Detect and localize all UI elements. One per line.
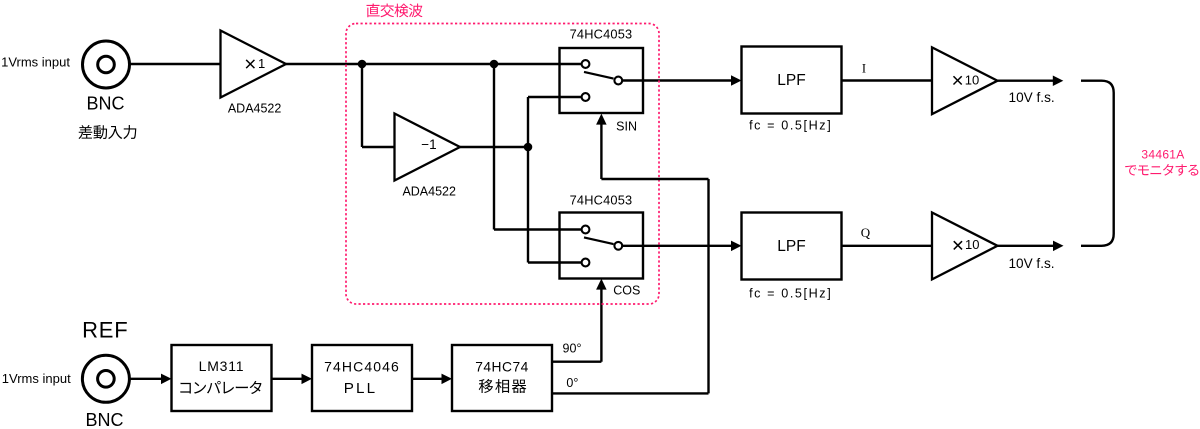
svg-text:34461A: 34461A [1141, 148, 1184, 162]
op-amp inverter -1 ADA4522 [395, 114, 461, 181]
svg-text:ADA4522: ADA4522 [228, 101, 282, 115]
op-amp buffer x1 ADA4522 [221, 31, 287, 98]
label: 直交検波 [367, 4, 380, 18]
wire: junction2 to COS switch upper pin [493, 64, 495, 230]
block 74HC4046 PLL [312, 345, 412, 411]
svg-text:10: 10 [965, 237, 979, 252]
wire: x10 output Q [998, 245, 1054, 247]
svg-text:1Vrms input: 1Vrms input [2, 371, 71, 386]
control arrow into COS switch [600, 290, 602, 362]
svg-text:BNC: BNC [86, 93, 124, 113]
node: junction 1 [358, 60, 367, 69]
svg-text:10: 10 [965, 72, 979, 87]
wire: x10 output I [998, 79, 1054, 81]
svg-text:PLL: PLL [344, 380, 378, 397]
wire: LPF2 to x10 amp [842, 245, 933, 247]
svg-text:10V f.s.: 10V f.s. [1009, 90, 1055, 105]
block LPF2 [742, 213, 842, 280]
wire: PLL to 74HC74 [412, 378, 442, 380]
wire: LM311 to PLL [272, 378, 302, 380]
svg-text:74HC4046: 74HC4046 [324, 359, 400, 375]
svg-text:0°: 0° [566, 376, 578, 390]
svg-text:Q: Q [861, 225, 871, 240]
svg-text:−1: −1 [421, 137, 436, 152]
svg-text:LM311: LM311 [199, 358, 245, 374]
svg-text:1Vrms input: 1Vrms input [1, 54, 70, 69]
block LPF1 [742, 47, 842, 114]
switch lever (COS) [584, 237, 614, 244]
svg-text:74HC4053: 74HC4053 [570, 193, 633, 208]
svg-text:LPF: LPF [777, 72, 805, 89]
label: 差動入力 [78, 125, 92, 139]
BNC connector J2 (bottom) [82, 355, 129, 402]
wire: inverter output [460, 146, 528, 148]
wire: inverted signal to COS switch lower pin [527, 147, 529, 263]
wire: 90deg output to COS control [552, 361, 601, 363]
block 74HC74 phase shifter [452, 345, 552, 411]
op-amp x10 (Q) [932, 213, 998, 280]
label: 移相器 [479, 379, 493, 393]
svg-text:74HC74: 74HC74 [475, 360, 529, 375]
wire: 0deg output to SIN control [552, 392, 709, 394]
bracket: monitored outputs [1081, 81, 1114, 246]
label: コンパレータ [180, 383, 191, 394]
wire: inverted signal to SIN switch lower pin [527, 97, 529, 147]
wire: BNC to LM311 [130, 378, 162, 380]
dashed box: quadrature detector [346, 24, 659, 305]
svg-text:LPF: LPF [777, 238, 805, 255]
wire: BNC to x1 amp [130, 63, 221, 65]
svg-text:REF: REF [82, 318, 128, 343]
analog switch U-SIN 74HC4053 [560, 48, 644, 113]
svg-text:I: I [862, 61, 866, 75]
label: でモニタする [1125, 165, 1136, 175]
wire: SIN output to LPF1 [622, 79, 731, 81]
control arrow into SIN switch [600, 125, 602, 180]
svg-text:BNC: BNC [85, 410, 123, 429]
wire: COS output to LPF2 [622, 245, 731, 247]
node: junction 2 [490, 60, 499, 69]
svg-text:SIN: SIN [616, 119, 637, 133]
svg-text:74HC4053: 74HC4053 [570, 26, 633, 41]
BNC connector J1 (top) [83, 41, 130, 88]
svg-text:fc = 0.5[Hz]: fc = 0.5[Hz] [749, 119, 832, 133]
svg-text:fc = 0.5[Hz]: fc = 0.5[Hz] [749, 287, 832, 301]
wire: x1 amp to SIN switch [286, 63, 561, 65]
node: junction 3 (inverter out) [524, 143, 533, 152]
switch lever (SIN) [584, 72, 614, 79]
svg-text:10V f.s.: 10V f.s. [1008, 256, 1054, 271]
svg-text:1: 1 [258, 56, 265, 71]
wire: LPF1 to x10 amp [842, 79, 933, 81]
svg-text:COS: COS [613, 284, 640, 298]
wire: junction1 down to inverter input [361, 64, 363, 147]
analog switch U-COS 74HC4053 [560, 213, 644, 279]
op-amp x10 (I) [932, 47, 998, 114]
block LM311 comparator [172, 345, 272, 411]
svg-text:90°: 90° [563, 342, 582, 356]
svg-text:ADA4522: ADA4522 [402, 184, 456, 198]
